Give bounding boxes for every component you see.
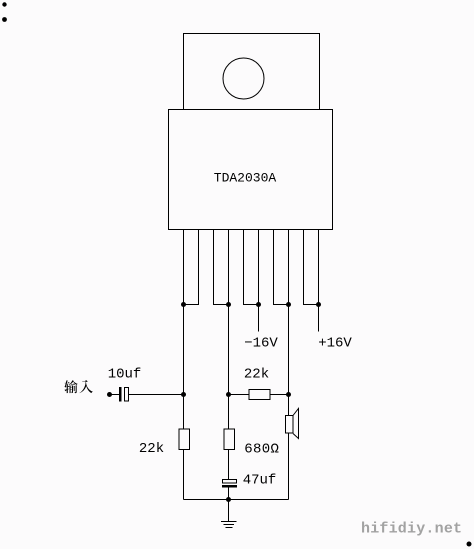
capacitor C2 47uf [222,480,237,488]
junction dot input node [181,392,186,397]
junction dot pin 1 [181,302,186,307]
pin 3 [244,230,259,305]
svg-text:47uf: 47uf [243,473,277,489]
label 输入 [64,380,93,393]
wire pin 2 branch down through R3 and C2 [228,305,230,500]
wire input terminal to C1 [110,394,120,396]
svg-text:−16V: −16V [244,336,278,352]
wire pin 1 branch down to bottom rail [183,305,185,500]
junction dot ground rail [226,497,231,502]
wire output branch pin 4 to speaker to bottom rail [288,305,290,500]
wire C1 to input node [129,394,184,396]
ground [221,500,237,528]
IC U1 TDA2030A body [169,110,333,230]
svg-text:22k: 22k [139,441,164,457]
junction dot feedback left [226,392,231,397]
wire feedback rail node pin2 to node pin4 [229,394,289,396]
svg-text:+16V: +16V [318,336,352,352]
IC U1 mounting hole [223,58,264,99]
resistor R1 22k vertical [179,429,190,450]
speaker LS1 [286,409,299,439]
junction dot pin 2 [226,302,231,307]
junction dot pin 4 [286,302,291,307]
pin 1 [184,230,199,305]
pin 5 [304,230,319,305]
pin 2 [214,230,229,305]
svg-text:TDA2030A: TDA2030A [214,171,277,186]
wire bottom ground rail [184,499,289,501]
svg-text:hifidiy.net: hifidiy.net [361,521,462,538]
junction dot pin 3 [256,302,261,307]
input terminal [107,392,112,397]
wire -16V supply from pin 3 [258,305,260,332]
svg-text:680Ω: 680Ω [244,442,279,458]
svg-text:22k: 22k [244,367,269,383]
wire +16V supply from pin 5 [318,305,320,332]
IC U1 TDA2030A package tab [184,34,320,110]
capacitor C1 10uf [119,387,129,402]
resistor R3 680 ohm vertical [224,429,235,450]
junction dot pin 5 [316,302,321,307]
junction dot feedback right [286,392,291,397]
resistor R2 22k horizontal [249,390,270,400]
pin 4 [274,230,289,305]
svg-text:10uf: 10uf [108,367,142,383]
